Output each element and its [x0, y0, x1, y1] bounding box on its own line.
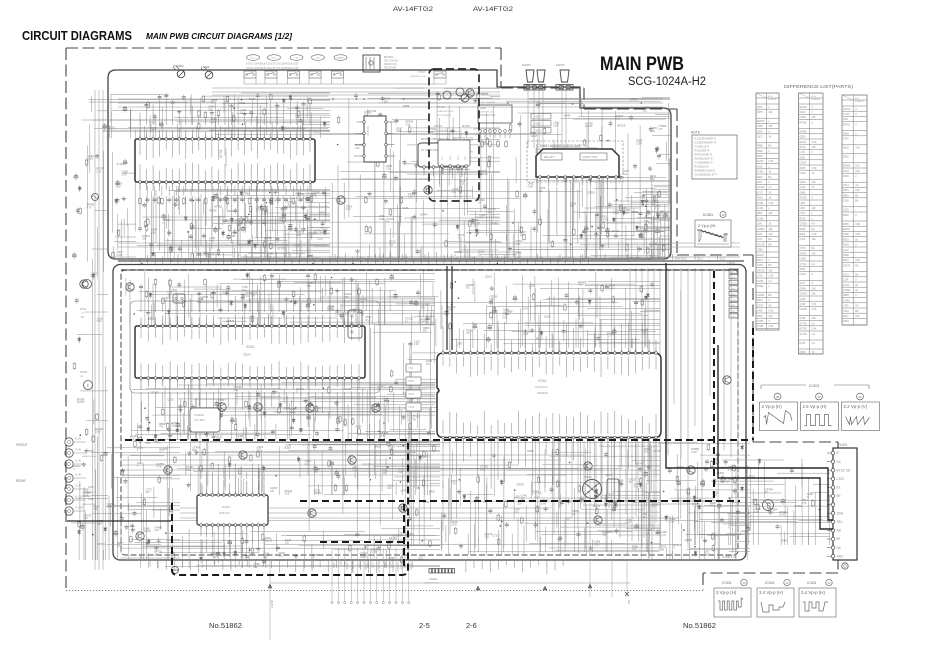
svg-text:Q623: Q623 [800, 181, 807, 184]
svg-text:3.3K: 3.3K [855, 223, 860, 226]
heavy dashed partial top edge [300, 500, 404, 502]
svg-text:10K: 10K [812, 287, 817, 290]
IC301 bottom pins [442, 438, 444, 442]
svg-text:2-6: 2-6 [466, 621, 477, 630]
svg-text:EF604: EF604 [843, 165, 851, 168]
svg-text:100/25: 100/25 [480, 173, 488, 176]
svg-text:F: F [87, 384, 89, 388]
svg-text:IC301: IC301 [722, 581, 732, 585]
bold wire route to tuner SDA [666, 263, 833, 520]
svg-text:5.6K: 5.6K [553, 124, 558, 127]
svg-text:GND: GND [450, 155, 452, 160]
svg-text:CT873: CT873 [226, 319, 234, 323]
svg-text:10K: 10K [812, 207, 817, 210]
svg-text:CO: CO [442, 157, 444, 160]
svg-text:0.047: 0.047 [236, 223, 243, 226]
svg-text:C750: C750 [335, 314, 342, 318]
svg-text:C156: C156 [843, 200, 849, 203]
svg-text:330: 330 [466, 287, 471, 290]
svg-text:*1:2SC9014/GR/*-9: *1:2SC9014/GR/*-9 [694, 137, 716, 140]
svg-text:No.51862: No.51862 [209, 621, 242, 630]
svg-text:IC501: IC501 [246, 345, 255, 349]
svg-text:*4:25G355**9: *4:25G355**9 [694, 149, 710, 152]
svg-text:3.3K: 3.3K [812, 308, 817, 311]
svg-text:J108: J108 [480, 106, 486, 110]
svg-text:Y301: Y301 [408, 367, 414, 370]
heavy dashed signal path horizontal center [125, 439, 750, 441]
svg-text:BUS_PWR: BUS_PWR [450, 259, 462, 261]
svg-text:A_IN: A_IN [75, 437, 81, 441]
svg-text:TV1.4: TV1.4 [731, 283, 737, 285]
svg-text:8.2K: 8.2K [524, 333, 529, 336]
svg-text:4.7K: 4.7K [87, 206, 92, 209]
svg-text:IC592: IC592 [757, 285, 764, 288]
svg-text:C489: C489 [843, 233, 849, 236]
svg-text:470: 470 [91, 275, 96, 278]
svg-text:BA: BA [768, 243, 772, 246]
svg-text:R_PNV: R_PNV [358, 560, 361, 568]
svg-text:R169: R169 [284, 406, 291, 410]
svg-text:0.047: 0.047 [117, 254, 124, 257]
svg-text:100: 100 [651, 130, 656, 133]
svg-text:FRONT: FRONT [16, 443, 28, 447]
svg-text:D625: D625 [375, 445, 382, 449]
svg-text:IC720: IC720 [843, 113, 850, 116]
svg-text:R456: R456 [843, 223, 849, 226]
svg-text:STC05: STC05 [418, 71, 426, 74]
svg-text:DIFFERENCE LIST(PARTS): DIFFERENCE LIST(PARTS) [784, 84, 854, 89]
svg-text:TU301: TU301 [838, 443, 848, 447]
svg-text:470: 470 [419, 558, 424, 561]
svg-text:R833: R833 [800, 268, 806, 271]
svg-text:SDA2 SCL2: SDA2 SCL2 [270, 258, 283, 261]
svg-text:D791: D791 [843, 138, 849, 141]
IR sensor RC701 inside [443, 91, 451, 99]
svg-text:*9:50P65G3/C5GZ: *9:50P65G3/C5GZ [694, 169, 715, 172]
svg-text:D266: D266 [843, 214, 849, 217]
svg-text:Q200: Q200 [800, 136, 807, 139]
svg-text:Q407: Q407 [781, 539, 788, 543]
svg-text:D641: D641 [757, 299, 763, 302]
svg-text:0.047: 0.047 [285, 493, 292, 496]
svg-text:330: 330 [384, 100, 389, 103]
waveform pin circle 46 [857, 393, 864, 400]
bold wire route audio left [67, 520, 171, 522]
svg-text:EF311: EF311 [228, 209, 236, 213]
svg-text:Q486: Q486 [800, 191, 807, 194]
svg-text:BA: BA [768, 294, 772, 297]
wire mesh region audio right lower [594, 187, 655, 189]
svg-text:EF192: EF192 [800, 121, 808, 124]
svg-text:2.2K: 2.2K [213, 556, 218, 559]
svg-text:IC301: IC301 [765, 581, 775, 585]
svg-text:TSL: TSL [517, 259, 522, 261]
svg-text:CT114: CT114 [116, 162, 124, 166]
svg-text:8.2K: 8.2K [206, 256, 211, 259]
video chroma IC301 [437, 353, 661, 438]
TU301 mounting screw [842, 563, 848, 569]
svg-text:47u: 47u [452, 191, 457, 194]
svg-text:CF740: CF740 [653, 449, 661, 453]
svg-text:35C: 35C [627, 600, 630, 605]
reset circuit left of IC701 [118, 223, 136, 225]
svg-text:IC366: IC366 [757, 325, 764, 328]
svg-text:1K: 1K [768, 191, 771, 194]
container lower section C2 [113, 265, 746, 561]
svg-text:SCL1: SCL1 [697, 259, 703, 261]
svg-text:A_IN: A_IN [75, 459, 81, 463]
waveform box pin42 [801, 402, 839, 431]
svg-text:D482: D482 [757, 150, 763, 153]
svg-text:VSB5 *: VSB5 * [534, 115, 542, 119]
svg-text:1K: 1K [768, 171, 771, 174]
svg-text:100/25: 100/25 [265, 540, 273, 543]
svg-text:HA51G2H: HA51G2H [535, 385, 548, 389]
svg-text:R319: R319 [843, 238, 849, 241]
svg-text:10K: 10K [726, 481, 731, 484]
wire mesh region top-left MCU surroundings [94, 128, 328, 130]
svg-text:V_SYNC: V_SYNC [409, 560, 412, 570]
svg-text:IC601 AN5265 AUDIO AMP: IC601 AN5265 AUDIO AMP [540, 144, 582, 148]
svg-text:EW305: EW305 [522, 63, 531, 67]
svg-text:L821: L821 [843, 118, 849, 121]
svg-text:1K: 1K [641, 233, 644, 236]
svg-text:3.3K: 3.3K [812, 233, 817, 236]
svg-text:EF211: EF211 [800, 141, 808, 144]
svg-text:CF859: CF859 [757, 294, 765, 297]
svg-text:CF572: CF572 [630, 97, 638, 101]
svg-text:Q182: Q182 [800, 303, 807, 306]
IC301 internal pin labels bottom [442, 420, 444, 434]
svg-text:470: 470 [641, 332, 646, 335]
svg-text:C680: C680 [757, 125, 763, 128]
IC701 bottom pins [139, 182, 141, 186]
svg-text:DA101: DA101 [481, 93, 489, 96]
svg-text:CF243: CF243 [843, 264, 851, 267]
svg-text:47u: 47u [150, 130, 155, 133]
svg-text:4.7K: 4.7K [157, 466, 162, 469]
transistor cluster [164, 466, 172, 474]
svg-text:BA: BA [855, 200, 859, 203]
svg-text:0.01: 0.01 [257, 449, 262, 452]
svg-text:CF392: CF392 [843, 289, 851, 292]
svg-text:1K: 1K [607, 335, 610, 338]
svg-text:3.3K: 3.3K [855, 233, 860, 236]
svg-text:2.2K: 2.2K [96, 171, 101, 174]
svg-text:TCL: TCL [405, 259, 410, 261]
svg-text:IC393: IC393 [800, 162, 807, 165]
svg-text:AUDIO OUT: AUDIO OUT [582, 155, 598, 159]
svg-text:IC764: IC764 [800, 263, 807, 266]
svg-text:DE ATT: DE ATT [544, 155, 554, 159]
bold dashed box audio-out section [429, 69, 479, 201]
svg-text:220: 220 [314, 471, 319, 474]
svg-text:1/2W: 1/2W [636, 143, 642, 146]
svg-text:10K: 10K [328, 308, 333, 311]
svg-text:BTSC 32i: BTSC 32i [837, 468, 851, 472]
IC301 external pin stubs bottom [442, 441, 444, 488]
svg-text:0.047: 0.047 [211, 121, 218, 124]
svg-text:R295: R295 [800, 228, 806, 231]
VSB5 jumper boxes [531, 114, 551, 120]
svg-text:SDA2 SCL2: SDA2 SCL2 [652, 258, 665, 261]
svg-text:CF258: CF258 [800, 223, 808, 226]
IC701 internal pin labels [139, 142, 141, 156]
svg-text:J002: J002 [88, 497, 94, 501]
svg-text:220: 220 [517, 503, 522, 506]
svg-text:IC701: IC701 [219, 149, 223, 158]
svg-text:470: 470 [211, 102, 216, 105]
svg-text:1024A-H2: 1024A-H2 [811, 98, 821, 101]
svg-text:YB75: YB75 [408, 380, 415, 383]
svg-text:220: 220 [602, 534, 607, 537]
svg-text:CIRCUIT DIAGRAMS: CIRCUIT DIAGRAMS [22, 28, 132, 43]
svg-text:L255: L255 [757, 233, 763, 236]
svg-text:C671: C671 [757, 136, 763, 139]
svg-text:CF213: CF213 [587, 191, 595, 195]
svg-text:BA: BA [812, 247, 816, 250]
svg-text:10K: 10K [192, 449, 197, 452]
svg-text:L505: L505 [757, 106, 763, 109]
svg-text:R818: R818 [843, 194, 849, 197]
svg-text:1024A-H2: 1024A-H2 [855, 100, 865, 103]
svg-text:D551: D551 [528, 449, 535, 453]
svg-text:D699: D699 [239, 101, 246, 105]
svg-text:D281: D281 [843, 320, 849, 323]
svg-text:8.2K: 8.2K [459, 183, 464, 186]
svg-text:2.2K: 2.2K [154, 529, 159, 532]
svg-text:220: 220 [154, 553, 159, 556]
svg-text:C670: C670 [108, 125, 115, 129]
SAW filter SF101 [607, 479, 619, 502]
discriminator SP101 [583, 480, 602, 499]
svg-text:*6:KA8L20/N/*-9: *6:KA8L20/N/*-9 [694, 157, 713, 160]
svg-text:TCL: TCL [540, 259, 545, 261]
svg-text:Q476: Q476 [400, 488, 407, 492]
svg-text:1K: 1K [855, 238, 858, 241]
bold wire route to tuner SEL [718, 345, 833, 529]
svg-text:47u: 47u [159, 426, 164, 429]
svg-text:A_IN: A_IN [75, 473, 81, 477]
svg-text:D252: D252 [800, 156, 806, 159]
svg-text:2.2K: 2.2K [386, 168, 391, 171]
svg-text:IF: IF [837, 451, 840, 455]
wire trunks right bundle [629, 268, 631, 421]
svg-text:POWER: POWER [173, 64, 184, 68]
svg-text:10K: 10K [768, 233, 773, 236]
svg-text:BA: BA [768, 145, 772, 148]
svg-text:1K: 1K [768, 223, 771, 226]
svg-text:1K: 1K [855, 289, 858, 292]
svg-text:470: 470 [769, 512, 774, 515]
svg-text:D346: D346 [757, 315, 763, 318]
bottom dotted border [66, 590, 703, 592]
svg-text:5.6K: 5.6K [541, 502, 546, 505]
svg-text:10K: 10K [855, 315, 860, 318]
svg-text:IC517: IC517 [800, 212, 807, 215]
svg-text:2.2 Vp-p (V): 2.2 Vp-p (V) [844, 404, 868, 409]
svg-text:13: 13 [742, 581, 746, 585]
svg-text:3.3K: 3.3K [768, 160, 773, 163]
svg-text:RECEIVER: RECEIVER [384, 67, 396, 70]
svg-text:4.7K: 4.7K [451, 483, 456, 486]
svg-text:SDA1: SDA1 [585, 258, 592, 261]
text IC IC501 [135, 326, 365, 378]
svg-text:10K: 10K [578, 284, 583, 287]
svg-text:IC301: IC301 [538, 379, 547, 383]
wire mesh region SIF right [646, 480, 696, 482]
svg-text:YSC4: YSC4 [408, 393, 415, 396]
svg-text:0.047: 0.047 [641, 516, 648, 519]
pin labels above lower container top [139, 258, 141, 264]
svg-text:EF207: EF207 [757, 254, 765, 257]
svg-text:C274: C274 [522, 307, 529, 311]
svg-text:C568: C568 [757, 249, 763, 252]
svg-text:P_ON/OFF: P_ON/OFF [396, 560, 399, 572]
svg-text:5.6K: 5.6K [502, 316, 507, 319]
svg-text:10K: 10K [812, 116, 817, 119]
transistor DT11 [83, 280, 92, 289]
svg-text:100: 100 [234, 389, 239, 392]
svg-text:56K: 56K [490, 299, 495, 302]
svg-text:EW306: EW306 [556, 63, 565, 67]
svg-text:220: 220 [285, 542, 290, 545]
jumper blocks Y301 group [406, 364, 421, 372]
svg-text:100: 100 [387, 487, 392, 490]
svg-text:0.047: 0.047 [285, 447, 292, 450]
svg-text:3.3K: 3.3K [812, 167, 817, 170]
svg-text:RC2 SENSOR: RC2 SENSOR [481, 102, 496, 104]
svg-text:1/2W: 1/2W [379, 218, 385, 221]
svg-text:100/25: 100/25 [314, 492, 322, 495]
op-amp/microcontroller IC701 [135, 139, 315, 182]
svg-text:10K: 10K [812, 146, 817, 149]
svg-text:8.2K: 8.2K [650, 178, 655, 181]
svg-text:IC392: IC392 [757, 202, 764, 205]
bottom-left audio small parts [112, 476, 172, 478]
svg-text:AB: AB [837, 529, 841, 533]
svg-text:SDA2 SCL2: SDA2 SCL2 [675, 258, 688, 261]
svg-text:CF449: CF449 [757, 186, 765, 189]
svg-text:3.3K: 3.3K [812, 303, 817, 306]
svg-text:4.7K: 4.7K [802, 502, 807, 505]
svg-text:GND: GND [731, 277, 736, 279]
svg-text:10K: 10K [768, 212, 773, 215]
svg-text:2.2K: 2.2K [414, 343, 419, 346]
container lower inner dashed [121, 270, 738, 555]
svg-text:CF476: CF476 [462, 124, 470, 128]
svg-text:NC: NC [837, 546, 842, 550]
svg-text:L78LR05E-MA: L78LR05E-MA [434, 129, 448, 132]
svg-text:CN002: CN002 [429, 577, 438, 581]
svg-text:L406: L406 [740, 529, 746, 533]
svg-text:EF747: EF747 [636, 461, 644, 465]
heavy dashed top inner border [121, 269, 738, 271]
heavy dashed vertical x404 partner [403, 504, 405, 570]
svg-text:IC301: IC301 [809, 383, 820, 388]
svg-text:OE000E: OE000E [537, 391, 548, 395]
bold vertical routes center [446, 266, 448, 350]
svg-text:CH+: CH+ [294, 58, 299, 60]
RGB IC371 [197, 495, 268, 525]
svg-text:220: 220 [643, 109, 648, 112]
svg-text:CN001: CN001 [727, 261, 736, 265]
svg-text:TSL: TSL [472, 259, 477, 261]
IC501 bottom pin drops [140, 392, 142, 423]
long trunk lines C2 [190, 299, 192, 491]
wire mesh region tuner area [790, 536, 831, 538]
IC501 top pin drops [140, 290, 142, 312]
svg-text:EF529: EF529 [757, 120, 765, 123]
IC601 AUDIO OUT box [580, 153, 607, 160]
svg-text:D487: D487 [312, 553, 319, 557]
svg-text:C225: C225 [843, 209, 849, 212]
svg-text:220: 220 [146, 442, 151, 445]
svg-text:5.6K: 5.6K [107, 506, 112, 509]
svg-text:100/25: 100/25 [530, 135, 538, 138]
svg-text:R376: R376 [800, 342, 806, 345]
svg-text:BA: BA [768, 264, 772, 267]
IC501 top pins [140, 322, 142, 326]
svg-text:CF135: CF135 [151, 391, 159, 395]
fuse bottom [172, 567, 179, 574]
svg-text:C257: C257 [565, 517, 572, 521]
IC301 internal pin labels top [442, 357, 444, 366]
IC301 lower component field [515, 497, 660, 499]
svg-text:R456: R456 [632, 210, 639, 214]
svg-text:CH-: CH- [316, 58, 320, 60]
svg-text:5.6K: 5.6K [406, 123, 411, 126]
svg-text:47u: 47u [157, 442, 162, 445]
svg-text:AV-14FTG2: AV-14FTG2 [393, 6, 433, 13]
svg-text:VOL+: VOL+ [250, 58, 256, 60]
svg-text:220: 220 [171, 425, 176, 428]
svg-text:10K: 10K [270, 490, 275, 493]
svg-text:2.2K: 2.2K [632, 548, 637, 551]
svg-text:CF629: CF629 [800, 308, 808, 311]
svg-text:AV-14FTG2: AV-14FTG2 [473, 6, 513, 13]
reset IC DC753 [418, 143, 468, 167]
svg-text:56K: 56K [421, 307, 426, 310]
svg-text:Q767: Q767 [272, 390, 279, 394]
svg-text:SCL1: SCL1 [360, 259, 366, 261]
svg-text:L531: L531 [393, 534, 399, 538]
wire mesh region text IC area [194, 288, 223, 290]
svg-text:L370: L370 [757, 238, 763, 241]
waveform box pin46 [842, 402, 880, 431]
svg-text:C403: C403 [800, 186, 806, 189]
svg-text:2.2K: 2.2K [346, 208, 351, 211]
svg-text:0.047: 0.047 [626, 522, 633, 525]
svg-text:EF892: EF892 [533, 489, 541, 493]
svg-text:CF374: CF374 [843, 108, 851, 111]
svg-text:11: 11 [785, 581, 788, 585]
svg-text:4.7K: 4.7K [661, 534, 666, 537]
svg-text:100: 100 [478, 253, 483, 256]
svg-text:0.047: 0.047 [262, 212, 269, 215]
svg-text:56K: 56K [660, 548, 665, 551]
svg-text:L816: L816 [757, 165, 763, 168]
svg-text:330: 330 [423, 330, 428, 333]
bold wire route top bus [118, 260, 744, 262]
photo sensor DT04 [461, 94, 469, 102]
svg-text:C115: C115 [317, 237, 324, 241]
long trunk lines C1 [310, 113, 312, 240]
svg-text:R_OUT: R_OUT [390, 560, 393, 569]
svg-text:CF501: CF501 [97, 542, 105, 546]
wire trunks horizontal lower [120, 454, 584, 456]
svg-text:A_MUTE: A_MUTE [364, 560, 367, 570]
